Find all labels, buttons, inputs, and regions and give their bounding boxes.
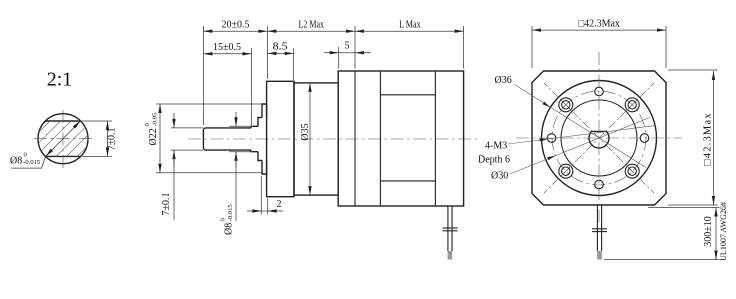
svg-text:Ø8: Ø8 [10,156,22,167]
dim 8.5 line [267,52,293,54]
svg-text:□42.3Max: □42.3Max [578,19,620,30]
dim 20±0.5 line [203,30,267,32]
motor lamination top line [380,94,435,96]
svg-text:□42.3Max: □42.3Max [703,112,714,166]
leader Ø36 [515,85,647,168]
svg-text:L2 Max: L2 Max [299,20,325,31]
motor front plate line [354,71,356,206]
svg-text:Ø22: Ø22 [148,128,159,145]
dim L2 Max line [267,30,355,32]
small hole bottom [595,180,604,189]
centerline horizontal (front) [516,137,682,139]
Ø22 pilot disc (side view) [262,104,267,174]
svg-text:Ø36: Ø36 [495,75,512,86]
bearing boss (side view) [258,118,262,161]
small hole top [595,87,604,96]
small hole left [547,134,556,143]
dimension 7±0.1 (detail) ext lines [82,120,112,122]
dim 15±0.5 line [203,53,251,55]
dim 20±0.5 ext lines [202,26,204,125]
M3 hole upper-right [625,98,639,112]
dim □42.3Max right ext lines [668,69,718,71]
dim 2 ext lines [260,176,262,215]
gearbox rear section Ø35 (side view) [294,83,338,195]
svg-text:-0.015: -0.015 [227,204,234,222]
dim Ø8 (side) ext lines [229,125,253,127]
svg-text:2: 2 [277,199,282,210]
centerline vertical (front) [598,52,600,226]
svg-text:-0.05: -0.05 [152,112,159,127]
bolt circle Ø30 dash-dot [552,91,646,185]
dim 7±0.1 (side) arrows outside [173,113,175,128]
dim 7±0.1 (side) ext lines [171,127,203,129]
leader for Ø8 label (detail) [11,156,46,168]
dim Ø22 text [144,112,159,146]
shaft flat bottom chord [45,155,80,157]
ext line shared L2/L [354,26,356,69]
svg-text:L Max: L Max [399,20,421,31]
svg-text:15±0.5: 15±0.5 [213,42,241,53]
svg-text:7±0.1: 7±0.1 [161,193,172,216]
dim □42.3Max top line [532,29,666,31]
small hole right [640,134,649,143]
side view centerline [188,138,478,140]
dim Ø22 line [159,104,161,173]
svg-text:Ø35: Ø35 [300,123,311,140]
centerline vertical (detail) [62,110,64,168]
svg-text:5: 5 [345,41,350,52]
dim 300±10 ext lines [648,207,720,209]
dim Ø22 ext lines [156,103,262,105]
diameter dimension line Ø8 (detail) [46,121,81,156]
gearbox front ring Ø36 (side view) [267,81,294,196]
dim 15±0.5 ext line [250,48,252,125]
shaft flat top chord [45,120,80,122]
motor front end-cap line [379,71,381,206]
M3 hole lower-right [625,164,639,178]
svg-text:20±0.5: 20±0.5 [222,20,250,31]
dim 5 outside arrows [324,52,339,54]
dim 5 ext line [338,47,340,69]
svg-text:7±0.1: 7±0.1 [107,128,118,151]
leader 4-M3 [508,126,655,144]
dim □42.3Max top ext lines [531,26,533,68]
svg-text:2:1: 2:1 [47,68,73,90]
front view square motor face [532,71,666,205]
svg-text:Ø8: Ø8 [224,223,235,235]
gearbox face circle Ø36 [542,81,657,196]
shaft section circle (2:1 detail) [38,114,88,164]
centerline horizontal (detail) [34,138,92,140]
dim Ø35 line [309,83,311,195]
dim 300±10 line [715,208,717,260]
motor rear end-cap line [434,71,436,206]
dim Ø8 (side) arrows outside [235,112,237,126]
leader Ø30 [510,117,650,174]
svg-text:-0.015: -0.015 [23,159,41,166]
svg-text:8.5: 8.5 [273,42,288,53]
inner pilot circle [561,100,637,176]
shaft flatted section (side view) [203,128,251,150]
dim 8.5 ext line [293,48,295,80]
dim 2 arrows outside [247,210,261,212]
shaft D-section (front view) [589,131,609,148]
diagonal hole centerlines [544,83,654,193]
svg-text:Ø30: Ø30 [491,171,508,182]
svg-text:4-M3: 4-M3 [485,141,507,152]
svg-text:Depth 6: Depth 6 [478,155,510,166]
motor lamination bottom line [380,180,435,182]
lead wire (front view) [592,205,607,260]
dim L Max line [355,30,464,32]
svg-text:UL1007 AWG26#: UL1007 AWG26# [719,202,728,261]
dim □42.3Max right line [713,71,715,205]
lead wire (side view) [443,206,458,260]
motor body outline (side view) [338,71,463,206]
dimension 7±0.1 (detail) dim line [107,121,109,156]
hatching [38,121,87,156]
shaft full Ø8 section (side view) [251,126,258,151]
dim Ø8 (side) text [220,204,235,235]
dim L Max right ext [463,26,465,69]
M3 hole upper-left [559,98,573,112]
label Ø8 0/-0.015 (detail) [10,152,41,167]
svg-text:300±10: 300±10 [703,216,714,247]
M3 hole lower-left [559,164,573,178]
